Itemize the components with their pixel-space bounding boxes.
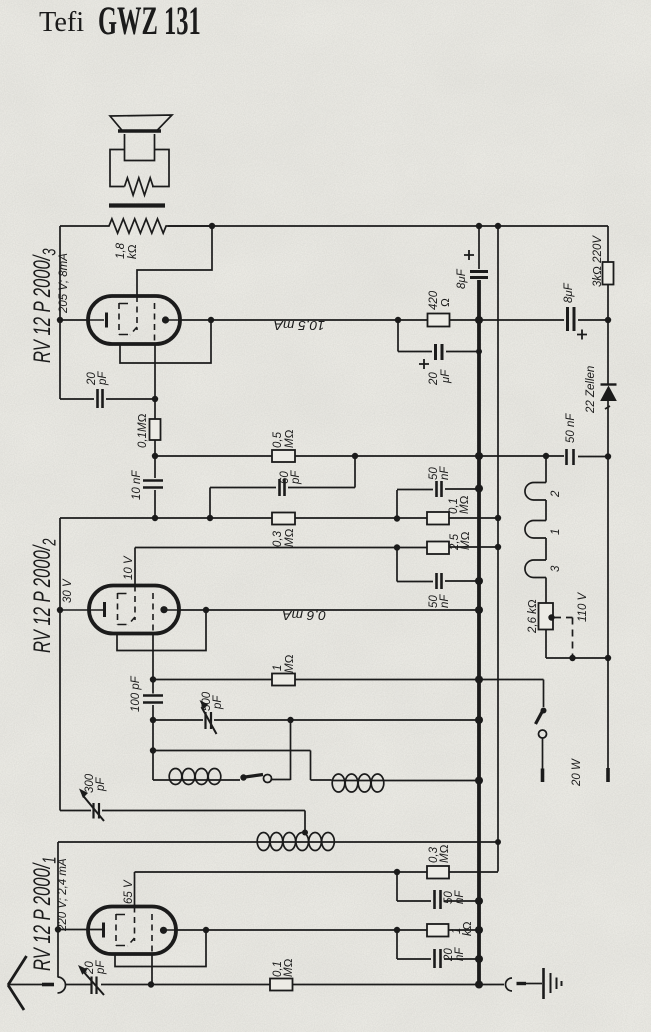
node (572.5,658) [569, 655, 575, 661]
resistor 0.1 MOhm (tube3) [150, 419, 161, 440]
svg-text:0,1MΩ: 0,1MΩ [448, 495, 471, 514]
resistor 2.5 MOhm [427, 542, 449, 555]
wire 0.3M to rail x498 [449, 871, 498, 873]
svg-text:30 V: 30 V [62, 578, 74, 603]
svg-text:8μF: 8μF [563, 282, 575, 303]
node (608,457) [605, 453, 611, 459]
resistor 1 MOhm [272, 674, 295, 686]
capacitor 50nF (top right) [567, 449, 574, 465]
wire anode output y610 [179, 609, 479, 611]
wire B+ top [168, 225, 608, 227]
svg-text:10 V: 10 V [123, 555, 135, 580]
node (212,226) [209, 223, 215, 229]
svg-text:20pF: 20pF [84, 960, 107, 975]
node (479,720) [475, 716, 483, 724]
node (479,320) [475, 316, 483, 324]
node (498,547) [495, 544, 501, 550]
svg-text:1: 1 [550, 529, 562, 535]
node (211,320) [208, 317, 214, 323]
node (479,226) [476, 223, 482, 229]
node (155,518) [152, 515, 158, 521]
node (479,901) [475, 897, 483, 905]
capacitor 60pF branch [210, 456, 355, 518]
wire y456 long [155, 455, 608, 458]
wire left rail upper [59, 226, 61, 399]
tube RV 12 P 2000/2 [60, 586, 179, 634]
capacitor 10nF [154, 456, 156, 518]
svg-text:20 W: 20 W [571, 758, 583, 787]
svg-text:60pF: 60pF [279, 470, 302, 485]
ground symbol [542, 968, 545, 999]
antenna socket arc [58, 977, 66, 993]
node (497.5,518) [495, 515, 501, 521]
svg-text:2,6 kΩ: 2,6 kΩ [527, 599, 539, 634]
wire grid tube3 [60, 319, 90, 321]
node (479,581) [475, 577, 483, 585]
wire anode-top tube2 [134, 548, 136, 586]
node (608,658) [605, 655, 611, 661]
svg-text:RV 12 P 2000/3: RV 12 P 2000/3 [29, 248, 60, 363]
resistor 0.3 MOhm (bottom) [427, 866, 449, 879]
svg-text:20pF: 20pF [86, 371, 109, 386]
wire grid1 tube3 down [154, 344, 156, 419]
wire x305 down to coil tap [304, 811, 306, 832]
svg-text:3kΩ 220V: 3kΩ 220V [592, 235, 604, 287]
rectifier 22 Zellen [607, 320, 609, 384]
node (397,547) [394, 544, 400, 550]
mains terminal right [606, 768, 610, 782]
trimmer 20pF (antenna) [92, 977, 97, 995]
node (479,610) [475, 606, 483, 614]
svg-text:20nF: 20nF [443, 947, 466, 962]
node coil tap (305,832) [302, 830, 308, 836]
transformer core [109, 203, 165, 207]
wire tube1 left [58, 929, 102, 931]
resistor 0.1 MOhm (power) [427, 512, 449, 525]
wire y984.5 [151, 984, 504, 986]
regeneration switch [240, 774, 246, 780]
mains switch [541, 708, 547, 714]
node (151,984.5) [148, 981, 154, 987]
svg-text:Tefi: Tefi [39, 7, 84, 38]
wire y750.5 jog [153, 751, 311, 781]
dashed 110V line [554, 618, 573, 659]
node (479,959) [475, 955, 483, 963]
svg-text:0,3MΩ: 0,3MΩ [272, 528, 296, 547]
node (153,679.5) [150, 676, 156, 682]
svg-text:0,3MΩ: 0,3MΩ [428, 844, 451, 863]
capacitor 50nF (number1) [397, 489, 479, 519]
svg-text:2: 2 [550, 490, 562, 498]
capacitor 8uF (bus) [470, 272, 488, 278]
tube RV 12 P 2000/3 [88, 296, 180, 344]
antenna plug pin [42, 983, 54, 987]
node (58,929.5) [55, 926, 61, 932]
main bus vertical [478, 226, 480, 269]
wire screen U tube2 [117, 610, 206, 651]
node (479,679.5) [475, 676, 483, 684]
node (206,930) [203, 927, 209, 933]
svg-text:RV 12 P 2000/1: RV 12 P 2000/1 [29, 857, 60, 971]
node (60,320) [57, 317, 63, 323]
earth socket arc [506, 978, 512, 991]
earth plug pin [517, 982, 527, 985]
wire screen U tube1 [115, 930, 206, 967]
capacitor 100pF [152, 680, 154, 721]
wire right rail to mains [607, 457, 609, 768]
wire screen U tube3 [120, 320, 211, 363]
wire y547 [135, 546, 498, 549]
capacitor 50nF (bottom) [397, 872, 479, 901]
capacitor 20uF [398, 320, 479, 352]
tap node (551,617.5) [548, 614, 554, 620]
wire x290.5 down [290, 720, 292, 780]
svg-text:0,6 mA: 0,6 mA [282, 608, 326, 622]
wire x153 down to coil1 [153, 720, 168, 780]
node (479,489) [475, 485, 483, 493]
trimmer 500pF [206, 712, 212, 729]
node (479,456) [475, 452, 483, 460]
wire heater bottom [546, 630, 608, 659]
heater chain bumps [525, 456, 546, 603]
svg-text:2,5MΩ: 2,5MΩ [449, 531, 472, 551]
svg-text:10,5 mA: 10,5 mA [273, 318, 325, 332]
resistor 1.8 kOhm [60, 219, 212, 233]
loudspeaker LS [110, 115, 172, 187]
svg-text:1,8kΩ: 1,8kΩ [115, 242, 139, 259]
wire grid1 tube2 [152, 634, 154, 680]
wire left rail mid [59, 518, 61, 811]
node (498,841.5) [495, 839, 501, 845]
node (155,456) [152, 453, 158, 459]
antenna [8, 956, 27, 1010]
node (355,456) [352, 453, 358, 459]
wire y679.5 to bus [153, 679, 479, 681]
node (206,610) [203, 607, 209, 613]
node (479,930) [475, 926, 483, 934]
svg-text:GWZ 131: GWZ 131 [98, 0, 201, 44]
resistor 420 Ohm [428, 314, 450, 327]
rail x498 [497, 226, 499, 872]
node (608,320) [605, 317, 611, 323]
svg-text:22 Zellen: 22 Zellen [585, 366, 597, 414]
node (478,984.5) ground bus end [475, 981, 483, 989]
svg-text:65 V: 65 V [123, 879, 135, 904]
resistor 1 kOhm [427, 924, 449, 937]
svg-text:50nF: 50nF [443, 890, 466, 904]
capacitor 20pF (tube3) [60, 398, 155, 400]
node (546,456) [543, 453, 549, 459]
node (153,720) [150, 717, 156, 723]
node (397,930) [394, 927, 400, 933]
resistor 2.6 kOhm [539, 603, 554, 630]
node (60,610) [57, 607, 63, 613]
capacitor 8uF (right) [568, 307, 575, 331]
resistor 3 kOhm [607, 226, 609, 320]
speaker voice-coil resistor [125, 178, 154, 195]
wire to node 456 [154, 440, 156, 456]
tube RV 12 P 2000/1 [88, 907, 176, 955]
svg-text:110 V: 110 V [577, 591, 589, 622]
capacitor 50nF (number2) [397, 548, 479, 582]
wire anode output y320 [180, 319, 608, 321]
wire left rail lower [57, 842, 59, 977]
resistor 0.1 MOhm (antenna) [270, 979, 293, 991]
wire switch branch y679.5 [479, 680, 544, 708]
wire anode-top tube1 [135, 872, 428, 907]
node (498,226) [495, 223, 501, 229]
wire y720 [153, 719, 479, 721]
trimmer 300pF [60, 810, 305, 812]
node (479,352) [476, 349, 482, 355]
antenna coil L3 [58, 841, 257, 843]
svg-text:0,5MΩ: 0,5MΩ [272, 429, 296, 448]
node (397,872) [394, 869, 400, 875]
wire anode output y930 [176, 929, 427, 931]
mains terminal left [541, 769, 545, 783]
node (479,780.5) [475, 777, 483, 785]
svg-text:RV 12 P 2000/2: RV 12 P 2000/2 [29, 538, 60, 653]
wire y518 [60, 517, 498, 519]
svg-text:10 nF: 10 nF [131, 470, 143, 500]
resistor 0.5 MOhm [272, 450, 295, 462]
wire anode-top tube3 [137, 226, 212, 296]
svg-text:220 V; 2,4 mA: 220 V; 2,4 mA [57, 858, 69, 932]
node (398,320) [395, 317, 401, 323]
coil L2 [311, 779, 332, 781]
capacitor 20nF [397, 930, 479, 959]
svg-text:205 V; 8mA: 205 V; 8mA [58, 253, 70, 314]
svg-text:0,1MΩ: 0,1MΩ [137, 413, 149, 448]
svg-text:50nF: 50nF [428, 594, 451, 608]
coil L1 [168, 779, 240, 781]
svg-text:100 pF: 100 pF [130, 675, 142, 712]
svg-text:3: 3 [550, 565, 562, 572]
wire grid1 tube1 down [151, 955, 153, 985]
node (290.5,720) [287, 717, 293, 723]
node (155,399) [152, 396, 158, 402]
node (153,750.5) [150, 747, 156, 753]
resistor 0.3 MOhm (mid) [272, 513, 295, 525]
node (210,518) [207, 515, 213, 521]
node (397,519) [394, 515, 400, 521]
svg-text:50nF: 50nF [428, 466, 451, 480]
svg-text:0,1MΩ: 0,1MΩ [272, 958, 295, 977]
svg-text:50 nF: 50 nF [565, 413, 577, 443]
svg-text:8μF: 8μF [456, 268, 468, 289]
